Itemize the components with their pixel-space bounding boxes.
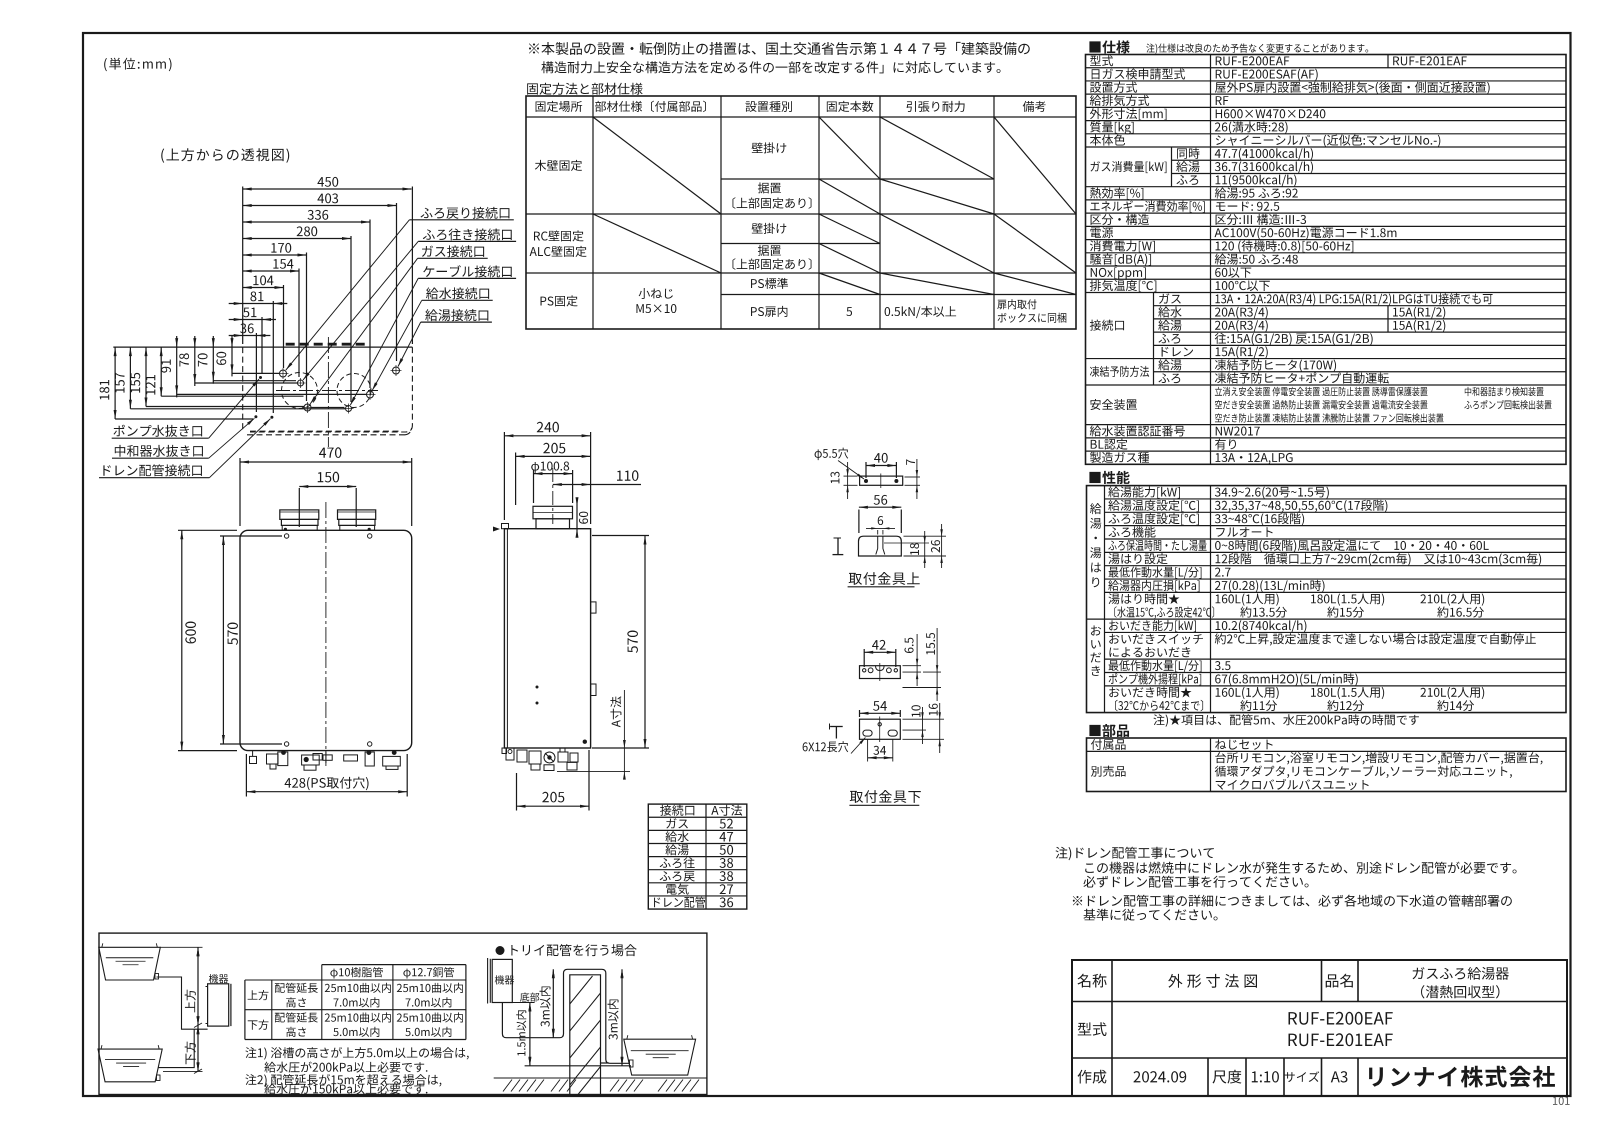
piping length table xyxy=(245,965,466,1040)
top view drain labels left xyxy=(99,379,270,478)
front view dim 570 xyxy=(220,536,282,744)
torii teibu label xyxy=(512,992,539,1002)
side view dim 240 xyxy=(504,422,590,524)
side view dim 205 bottom xyxy=(517,750,590,811)
performance footnote xyxy=(1153,714,1418,726)
lower bracket strip1 xyxy=(860,663,901,681)
performance group labels vertical xyxy=(1090,503,1102,676)
top view circles center line xyxy=(276,390,378,392)
side view right tabs xyxy=(591,602,596,696)
side view dim 570 xyxy=(592,536,649,749)
spec table labels xyxy=(1090,55,1205,463)
dim kaho lower xyxy=(163,1023,203,1074)
top view dim extension lines xyxy=(243,187,413,414)
dim joho upper xyxy=(160,947,202,1025)
front view bottom fittings xyxy=(250,750,401,770)
front view center line xyxy=(325,502,327,766)
spec table values xyxy=(1215,56,1552,464)
upper bracket dim 6 xyxy=(866,516,895,535)
title block bottom row xyxy=(1078,1066,1555,1088)
piping notes xyxy=(245,1047,468,1094)
fixing table header texts xyxy=(536,101,1046,113)
top view connection port circles xyxy=(278,365,402,414)
top view drain points xyxy=(254,376,273,419)
lower bracket dim 10 xyxy=(903,705,927,744)
side view flue center line xyxy=(552,468,554,524)
top view front edge line xyxy=(113,346,412,348)
fixing table diagonal slashes xyxy=(593,117,1076,295)
side view top bracket tab xyxy=(493,524,509,532)
drain piping note title xyxy=(1056,847,1214,861)
side view bottom fittings xyxy=(506,748,578,771)
front view dim 470 xyxy=(240,447,412,526)
top view vertical dims left xyxy=(100,336,234,419)
fixing table row texts xyxy=(530,142,1067,322)
page number 101 xyxy=(1553,1097,1570,1105)
spec table grid xyxy=(1086,55,1567,465)
performance table values xyxy=(1215,487,1541,711)
title block frame xyxy=(1072,960,1567,1096)
performance table grid xyxy=(1087,486,1567,713)
upper bracket phi5.5 label xyxy=(815,448,864,479)
installation note line2 xyxy=(541,61,1000,73)
upper bathtub xyxy=(99,943,161,980)
lower bathtub xyxy=(98,1045,162,1082)
side view screws dots xyxy=(536,686,588,744)
torii ground lower xyxy=(494,1077,707,1079)
top view burner dashed circle right xyxy=(337,374,371,408)
torii dim 3m right xyxy=(608,969,624,1066)
top view port labels right xyxy=(286,207,516,405)
unit note (tanni:mm) xyxy=(104,58,171,72)
torii dim 1.5m xyxy=(516,1003,531,1066)
side view dim 110 xyxy=(553,470,641,486)
top view title xyxy=(161,148,289,163)
upper bracket caption xyxy=(848,572,920,587)
upper bracket side symbol xyxy=(833,538,844,555)
side view dim phi100.8 xyxy=(531,461,572,503)
side view dim 60 flue xyxy=(576,497,589,537)
upper bracket dim 13 xyxy=(830,462,857,499)
front view body outline xyxy=(240,530,412,750)
parts section header 部品 xyxy=(1089,724,1129,737)
A-size table xyxy=(648,804,747,909)
fixing table title 固定方法と部材仕様 xyxy=(527,83,642,95)
left diagram unit box xyxy=(206,974,231,1026)
upper bracket lower piece xyxy=(859,536,930,556)
upper bracket dim 18 xyxy=(910,531,926,568)
torii title xyxy=(496,944,637,956)
upper bracket dim 26 xyxy=(904,524,947,568)
top view center line xyxy=(327,337,329,447)
performance section header 性能 xyxy=(1089,471,1129,484)
lower bracket caption xyxy=(849,790,920,805)
torii ground hatching xyxy=(503,1080,699,1092)
top view horizontal connector lines xyxy=(115,373,366,419)
side view bottom bracket foot xyxy=(502,748,507,754)
lower bracket strip2 xyxy=(860,717,901,743)
front view dim 600 xyxy=(178,530,237,750)
left diagram piping xyxy=(157,977,208,1068)
torii ground upper xyxy=(525,1065,631,1067)
upper bracket plate xyxy=(860,474,903,489)
upper bracket dim 7 xyxy=(905,459,921,499)
lower bracket dim 16 xyxy=(903,703,945,753)
side view dim A xyxy=(557,690,630,780)
performance table labels xyxy=(1108,486,1214,711)
lower bracket dim 42 xyxy=(864,640,896,667)
front view dim 428 PS xyxy=(246,754,407,797)
lower bracket dim 15.5 xyxy=(903,628,942,701)
torii wall xyxy=(570,975,609,1095)
torii dim 3m left xyxy=(540,969,555,1037)
fixing table grid xyxy=(526,96,1076,329)
lower bracket side symbol xyxy=(830,724,843,739)
lower bracket dim 34 xyxy=(868,739,893,762)
title block model row xyxy=(1078,1012,1393,1046)
torii right bathtub xyxy=(624,1035,696,1075)
upper bracket dim 40 xyxy=(866,453,896,478)
lower bracket dim 6.5 xyxy=(903,634,922,686)
side view flue collar xyxy=(533,506,573,528)
top view wall dashed thick line xyxy=(286,343,370,346)
installation note line1 xyxy=(529,42,1030,55)
parts table texts xyxy=(1091,739,1543,790)
front view screw holes xyxy=(284,528,372,747)
top view unit dashed outline xyxy=(243,347,413,432)
drain piping note body xyxy=(1083,862,1516,888)
upper bracket dim 56 xyxy=(859,495,901,533)
drain piping note 2 xyxy=(1073,895,1512,921)
top view burner dashed circle left xyxy=(282,373,318,409)
spec section header 仕様 xyxy=(1089,40,1368,53)
piping diagram box xyxy=(99,933,707,1094)
lower bracket 6x12 label xyxy=(803,738,866,754)
top view bottom dashed double line xyxy=(247,428,412,435)
top view horizontal dims xyxy=(229,177,412,337)
front view top pipes xyxy=(280,510,376,530)
torii pipe xyxy=(502,969,630,1063)
front view dim 150 xyxy=(299,472,356,527)
title block row1 texts xyxy=(1077,967,1509,999)
parts table grid xyxy=(1087,738,1567,792)
torii unit box xyxy=(488,958,515,1004)
side view body outline xyxy=(504,529,590,748)
lower bracket dim 54 xyxy=(860,701,901,717)
side view dim 205 top xyxy=(516,443,591,505)
